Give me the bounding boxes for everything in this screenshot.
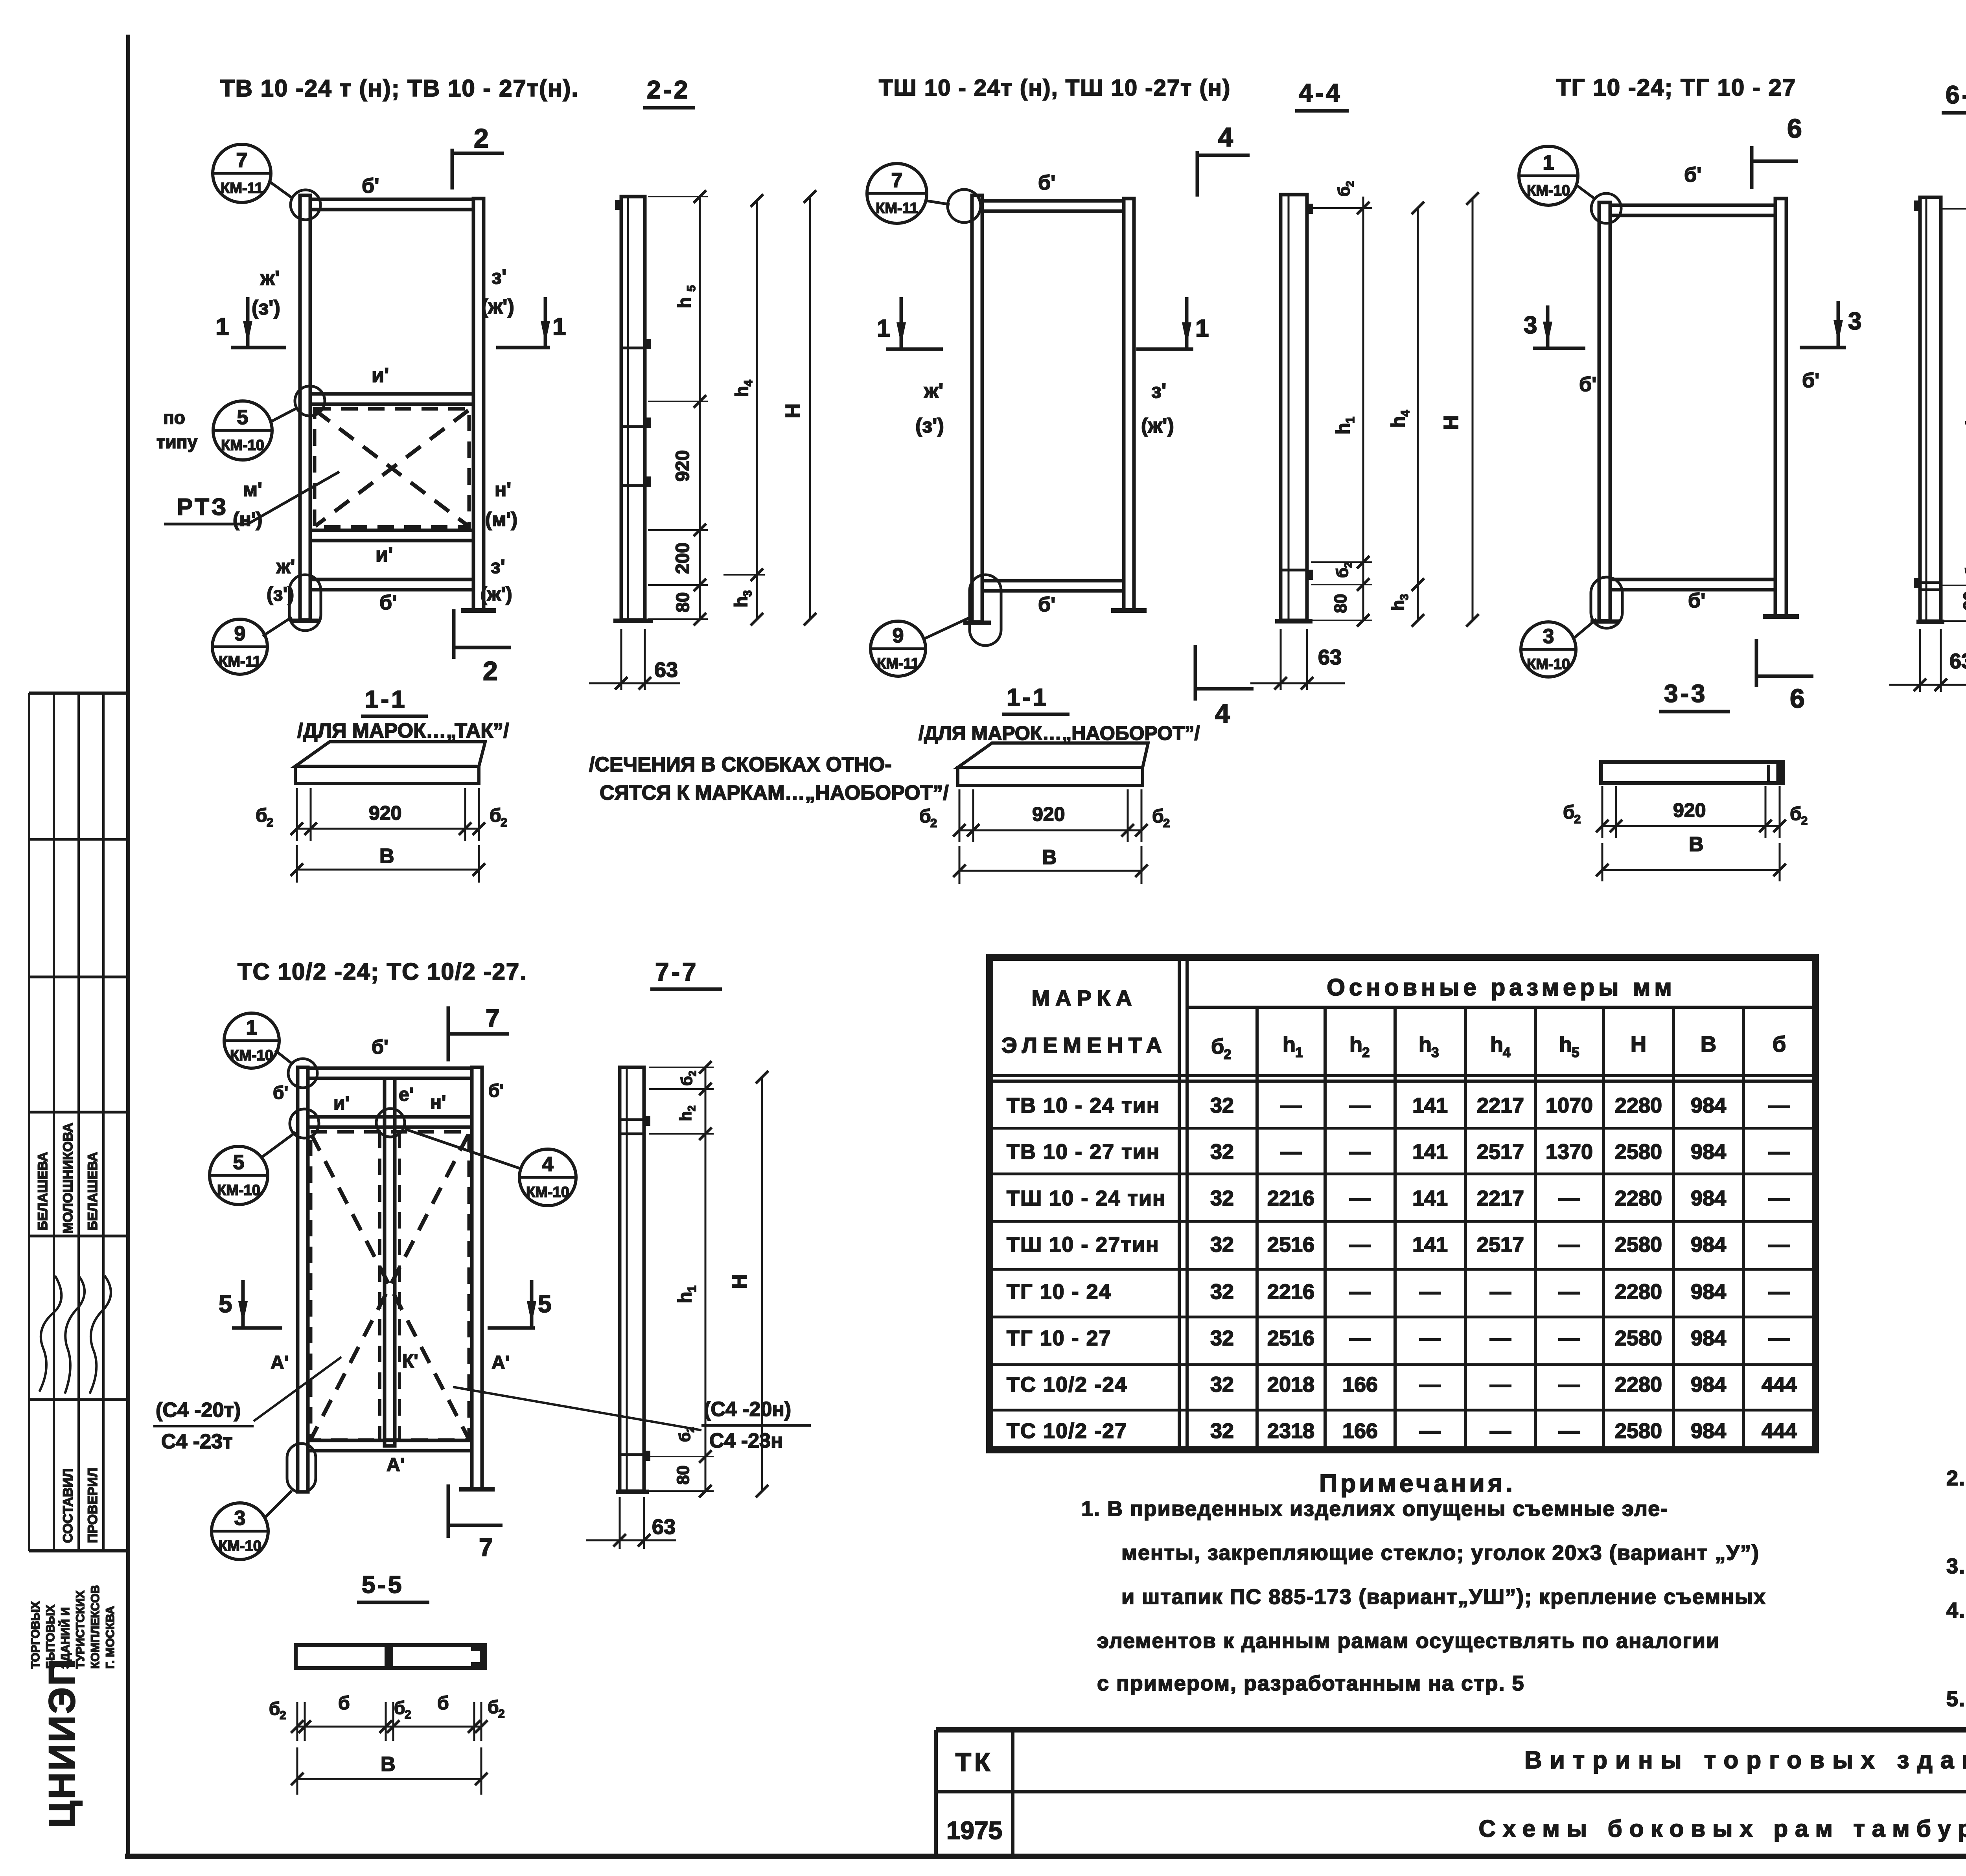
section 6-6 bar [1920,197,1941,621]
dim line N of 7-7 [761,1077,763,1491]
svg-text:6-6: 6-6 [1946,81,1966,109]
TV top bar b' [310,199,473,210]
svg-text:7: 7 [486,1004,500,1032]
svg-text:—: — [1490,1280,1511,1304]
svg-text:2580: 2580 [1615,1140,1662,1164]
svg-text:2018: 2018 [1267,1373,1314,1396]
TG right column [1775,199,1786,616]
svg-text:з': з' [1151,380,1166,403]
svg-text:32: 32 [1210,1326,1234,1350]
svg-text:ТГ 10 - 24: ТГ 10 - 24 [1007,1280,1112,1304]
svg-text:80: 80 [1331,594,1350,613]
TV bottom bar b' [310,579,473,590]
svg-text:1: 1 [1195,315,1209,342]
svg-text:32: 32 [1210,1094,1234,1117]
svg-text:7: 7 [891,169,903,192]
main dimension table frame [990,957,1815,1450]
svg-text:—: — [1769,1233,1790,1256]
TG section mark 6 bottom [1755,639,1758,687]
svg-text:—: — [1490,1419,1511,1443]
svg-text:—: — [1559,1280,1580,1304]
leader C4-20t [254,1357,341,1421]
svg-text:1: 1 [246,1016,258,1039]
svg-text:ТС 10/2 -24: ТС 10/2 -24 [1007,1373,1127,1396]
svg-text:4: 4 [1218,122,1233,152]
svg-text:4: 4 [542,1153,554,1176]
TSh left column foot [963,621,991,625]
leader 9 KM-11 TSh [924,617,970,639]
stamp signature 1 [39,1276,61,1392]
svg-text:3: 3 [1398,594,1411,600]
svg-text:63: 63 [1318,646,1342,669]
TV right column foot [461,608,496,613]
svg-text:1-1: 1-1 [1007,684,1049,711]
section 4-4 bar foot [1275,619,1313,623]
leader 9 KM-11 [263,617,292,636]
leader 4 KM-10 TS [405,1129,520,1168]
svg-text:Н: Н [1440,415,1463,430]
svg-text:5: 5 [237,406,249,429]
svg-text:1: 1 [1343,417,1357,423]
svg-text:Н: Н [782,403,804,418]
svg-text:2: 2 [405,1708,411,1721]
svg-text:ж': ж' [924,380,943,403]
svg-text:—: — [1559,1373,1580,1396]
svg-text:ПРОВЕРИЛ: ПРОВЕРИЛ [85,1468,100,1543]
svg-text:б: б [269,1698,280,1719]
corner joint circle TS second bar [290,1109,319,1138]
section 2-2 bar [621,197,645,620]
svg-text:—: — [1280,1094,1301,1117]
svg-text:В: В [1689,833,1704,856]
svg-text:ж': ж' [260,267,280,290]
svg-text:—: — [1769,1326,1790,1350]
svg-text:Примечания.: Примечания. [1319,1469,1516,1497]
TS top bar b' [308,1068,472,1078]
svg-text:МОЛОШНИКОВА: МОЛОШНИКОВА [61,1123,75,1234]
svg-text:2: 2 [1801,814,1808,828]
node 3 KM-10 TS [212,1503,268,1560]
TS left column [298,1067,308,1492]
svg-text:и штапик ПС 885-173 (вариант: и штапик ПС 885-173 (вариант„УШ”); крепл… [1121,1585,1766,1609]
TV section mark 1 left [246,297,250,348]
leader 3 KM-10 TS [264,1491,292,1518]
node 7 KM-11 TSh [867,164,927,223]
svg-text:К': К' [402,1351,418,1372]
svg-text:3-3: 3-3 [1664,679,1708,708]
svg-text:4. Установку дверных створок: 4. Установку дверных створок с приборами… [1946,1598,1966,1622]
svg-text:/ДЛЯ МАРОК…„НАОБОРОТ”/: /ДЛЯ МАРОК…„НАОБОРОТ”/ [919,722,1200,744]
dim line N of 4-4 [1472,199,1474,620]
svg-text:—: — [1349,1280,1371,1304]
TV section mark 2 top [451,149,454,189]
svg-text:9: 9 [234,622,246,645]
svg-text:БЕЛАШЕВА: БЕЛАШЕВА [35,1152,50,1230]
svg-text:80: 80 [1960,591,1966,611]
svg-text:h: h [676,1111,695,1121]
svg-text:166: 166 [1342,1419,1378,1443]
svg-text:4: 4 [1215,699,1230,728]
svg-text:КМ-10: КМ-10 [1527,656,1570,673]
svg-text:32: 32 [1210,1140,1234,1164]
dim 63 bottom of 4-4 [1280,629,1282,690]
TG left column foot [1590,620,1619,624]
svg-text:32: 32 [1210,1186,1234,1210]
dim line h4 h3 of 4-4 [1417,208,1419,620]
svg-text:б: б [1773,1032,1786,1056]
TV grille diagonal 1 [315,410,468,526]
1-1 naoborot dim b2 920 b2 [959,789,961,842]
svg-text:166: 166 [1342,1373,1378,1396]
svg-text:2216: 2216 [1267,1186,1314,1210]
svg-text:2217: 2217 [1477,1094,1524,1117]
svg-text:ТВ 10 - 27 тин: ТВ 10 - 27 тин [1007,1140,1160,1164]
stamp signature 3 [90,1276,111,1394]
TS section mark 7 top [447,1006,450,1061]
TSh section mark 1 right [1185,297,1189,350]
svg-text:2517: 2517 [1477,1233,1524,1256]
svg-text:(ж'): (ж') [1141,414,1174,437]
svg-text:В: В [1701,1032,1716,1056]
svg-text:3: 3 [1848,308,1861,335]
main table header lines [1187,1006,1815,1009]
svg-text:б: б [1333,568,1351,578]
svg-text:б: б [490,805,501,826]
svg-text:РТЗ: РТЗ [177,494,228,520]
5-5 dim b2 b b2 b b2 [296,1702,298,1741]
svg-text:(н'): (н') [233,508,262,530]
svg-text:ТВ 10 -24 т (н); ТВ 10 - 27т(: ТВ 10 -24 т (н); ТВ 10 - 27т(н). [220,75,579,101]
svg-text:ТОРГОВЫХ: ТОРГОВЫХ [29,1601,42,1669]
stamp name Moloshnikova [61,1123,75,1234]
svg-text:КМ-10: КМ-10 [230,1047,273,1064]
svg-text:984: 984 [1691,1326,1726,1350]
svg-text:2: 2 [930,816,937,830]
corner joint circle TG [1591,193,1621,223]
svg-text:3: 3 [1543,625,1554,648]
svg-text:б': б' [1579,373,1596,396]
svg-text:2216: 2216 [1267,1280,1314,1304]
stamp role sostavil [61,1468,75,1543]
svg-text:—: — [1419,1280,1441,1304]
svg-text:б: б [1563,802,1575,823]
TV section mark 1 right [544,297,547,348]
svg-text:КМ-10: КМ-10 [221,437,264,454]
stamp role proveril [85,1468,100,1543]
svg-text:1975: 1975 [946,1816,1002,1845]
svg-text:ТС 10/2 -27: ТС 10/2 -27 [1007,1419,1127,1443]
TV left column [300,195,310,620]
svg-text:КМ-11: КМ-11 [219,653,261,670]
svg-text:/СЕЧЕНИЯ В СКОБКАХ ОТНО-: /СЕЧЕНИЯ В СКОБКАХ ОТНО- [589,753,892,776]
svg-text:КМ-10: КМ-10 [1527,182,1570,199]
svg-text:2: 2 [686,1105,698,1111]
svg-text:б': б' [488,1080,504,1101]
stamp table horizontals [29,692,127,695]
svg-text:1-1: 1-1 [365,686,407,713]
TS bottom bar A' [308,1440,472,1451]
svg-text:б: б [488,1697,499,1717]
TS right column [472,1067,482,1489]
svg-text:7-7: 7-7 [655,958,699,986]
svg-text:2: 2 [498,1707,505,1720]
svg-text:2580: 2580 [1615,1233,1662,1256]
svg-text:9: 9 [893,624,904,647]
sheet left border [126,35,130,1856]
svg-text:141: 141 [1412,1186,1448,1210]
corner joint circle TSh [948,189,981,223]
svg-text:Н: Н [728,1274,751,1289]
svg-text:Витрины торговых зданий: Витрины торговых зданий [1524,1747,1966,1774]
svg-text:63: 63 [1949,649,1966,673]
leader 3 KM-10 TG [1574,619,1596,638]
svg-text:3: 3 [1524,312,1537,339]
svg-text:444: 444 [1762,1373,1797,1396]
svg-text:б: б [256,805,267,826]
svg-text:—: — [1349,1094,1371,1117]
svg-text:2580: 2580 [1615,1326,1662,1350]
svg-text:984: 984 [1691,1094,1726,1117]
svg-text:2: 2 [483,656,498,686]
title block verticals [934,1730,938,1856]
svg-text:h: h [731,386,752,397]
section 7-7 bar tabs [644,1116,650,1126]
svg-text:141: 141 [1412,1094,1448,1117]
svg-text:Г. МОСКВА: Г. МОСКВА [104,1606,117,1669]
svg-text:h: h [1490,1033,1503,1056]
1-1 naoborot bar 3d view [958,743,1148,767]
dim line N overall [809,197,811,619]
svg-text:типу: типу [156,432,198,452]
TV left column foot [291,619,319,623]
3-3 dim b2 920 b2 [1602,786,1603,838]
svg-text:—: — [1769,1094,1790,1117]
main table vertical lines [1178,957,1181,1450]
svg-text:141: 141 [1412,1233,1448,1256]
svg-text:—: — [1490,1326,1511,1350]
svg-text:h: h [674,297,694,308]
svg-text:б: б [1152,806,1164,827]
svg-text:ТУРИСТСКИХ: ТУРИСТСКИХ [74,1591,87,1669]
svg-text:2516: 2516 [1267,1326,1314,1350]
svg-text:1: 1 [1543,151,1554,174]
node 1 KM-10 TS [224,1013,279,1068]
section 2-2 bar foot [613,619,653,623]
1-1 bar 3d view [295,742,485,766]
svg-text:4: 4 [1398,410,1412,417]
dim line h4 h3 [756,200,758,619]
3-3 bar plan view [1601,762,1783,783]
svg-text:2280: 2280 [1615,1094,1662,1117]
stamp name Belasheva 2 [85,1152,100,1230]
svg-text:—: — [1559,1419,1580,1443]
svg-text:ЭЛЕМЕНТА: ЭЛЕМЕНТА [1001,1033,1167,1058]
svg-text:2: 2 [501,815,507,829]
svg-text:2: 2 [474,123,489,153]
svg-text:Основные размеры мм: Основные размеры мм [1327,974,1676,1001]
svg-text:1. В приведенных изделиях о: 1. В приведенных изделиях опущены съемны… [1081,1497,1668,1521]
svg-text:Н: Н [1631,1032,1646,1056]
leader RT3 [164,472,339,524]
TS diagonal brace 2 [311,1135,468,1438]
svg-text:БЕЛАШЕВА: БЕЛАШЕВА [85,1152,100,1230]
svg-text:h: h [1388,416,1409,428]
svg-text:5: 5 [233,1151,245,1174]
section 2-2 bar break lines [621,347,645,349]
svg-text:—: — [1559,1233,1580,1256]
stamp signature 2 [65,1276,85,1394]
svg-text:—: — [1419,1326,1441,1350]
svg-text:32: 32 [1210,1419,1234,1443]
svg-text:h: h [1388,600,1408,611]
svg-text:и': и' [372,364,389,387]
svg-text:—: — [1419,1373,1441,1396]
leader 7 KM-11 [270,182,293,199]
svg-text:3: 3 [1431,1045,1439,1060]
svg-text:4: 4 [1503,1045,1511,1060]
svg-text:КМ-11: КМ-11 [876,200,918,217]
svg-text:984: 984 [1691,1419,1726,1443]
svg-text:5. Схемы решеток „РТЗ” и узл: 5. Схемы решеток „РТЗ” и узлы установок … [1946,1687,1966,1711]
section 7-7 bar [620,1067,644,1491]
svg-text:КМ-11: КМ-11 [221,180,263,197]
dim line of 7-7 h2 h1 [705,1067,707,1491]
dim line b2 h1 b2 80 [1362,197,1364,620]
svg-text:КМ-11: КМ-11 [877,655,919,672]
svg-text:2: 2 [267,815,273,829]
svg-text:б': б' [379,591,397,614]
TV right column [473,199,484,611]
TSh left column [972,195,982,622]
svg-text:ЦНИИЭП: ЦНИИЭП [41,1657,83,1828]
svg-text:444: 444 [1762,1419,1797,1443]
svg-text:б: б [1335,186,1353,197]
svg-text:элементов к данным рамам о: элементов к данным рамам осуществлять по… [1097,1629,1720,1653]
svg-text:В: В [1042,846,1057,869]
svg-text:(С4 -20н): (С4 -20н) [704,1398,791,1421]
svg-text:и': и' [376,543,393,566]
svg-text:1: 1 [215,313,229,340]
svg-text:2: 2 [1163,816,1170,830]
svg-text:С4 -23н: С4 -23н [709,1429,783,1452]
node 4 KM-10 TS [519,1149,576,1206]
TSh section mark 4 top [1196,151,1199,197]
svg-text:h: h [1963,414,1966,425]
svg-text:2: 2 [280,1709,286,1722]
svg-text:ТШ 10 - 24 тин: ТШ 10 - 24 тин [1007,1186,1166,1210]
svg-text:3. Схемы дверных створок см: 3. Схемы дверных створок см. лист КМ-7 [1946,1554,1966,1578]
dim 63 bottom of 6-6 [1919,629,1921,692]
TSh section mark 4 bottom [1194,645,1197,701]
node 9 KM-11 [212,619,267,674]
svg-text:б': б' [1688,589,1705,612]
svg-text:984: 984 [1691,1373,1726,1396]
svg-text:е': е' [399,1084,414,1105]
svg-text:по: по [163,407,185,428]
TV lower bar i' [310,530,473,541]
stamp institute text block [29,1585,117,1669]
svg-text:—: — [1559,1326,1580,1350]
svg-text:32: 32 [1210,1280,1234,1304]
svg-text:б: б [437,1693,449,1714]
svg-text:2: 2 [685,1427,696,1433]
svg-text:2. Общие указания по технол: 2. Общие указания по технологии изготовл… [1946,1466,1966,1490]
svg-text:КМ-10: КМ-10 [217,1182,260,1199]
svg-text:з': з' [491,266,506,289]
svg-text:3: 3 [741,590,754,597]
svg-text:н': н' [430,1092,446,1113]
TS second bar i' e' n' [308,1117,472,1127]
stamp name Belasheva 1 [35,1152,50,1230]
svg-text:2: 2 [1362,1045,1370,1060]
joint outline at TS left foot [287,1444,316,1492]
node 9 KM-11 TSh [871,621,926,676]
TS section mark 7 bottom [447,1484,450,1538]
svg-text:—: — [1419,1419,1441,1443]
svg-text:5: 5 [219,1291,232,1318]
svg-text:б: б [676,1432,694,1442]
svg-text:5: 5 [538,1291,551,1318]
leader 5 KM-10 TS [261,1132,296,1158]
svg-text:h: h [1559,1033,1572,1056]
svg-text:2580: 2580 [1615,1419,1662,1443]
svg-text:—: — [1559,1186,1580,1210]
node 3 KM-10 TG [1521,622,1576,677]
section 6-6 bar tabs [1914,200,1920,211]
svg-text:СЯТСЯ К МАРКАМ…„НАОБОРОТ”/: СЯТСЯ К МАРКАМ…„НАОБОРОТ”/ [600,782,949,804]
node 5 KM-10 TS [210,1146,268,1205]
svg-text:(С4 -20т): (С4 -20т) [156,1399,241,1422]
svg-text:6: 6 [1787,114,1802,143]
1-1 dim V [296,845,298,883]
svg-text:и': и' [333,1093,350,1114]
svg-text:ТВ 10 - 24 тин: ТВ 10 - 24 тин [1007,1094,1160,1117]
svg-text:141: 141 [1412,1140,1448,1164]
svg-text:2217: 2217 [1477,1186,1524,1210]
section 7-7 bar breaks [620,1118,644,1121]
svg-text:б: б [919,806,931,827]
TG section mark 3 left [1546,305,1550,349]
joint outline at TG left foot [1591,577,1622,628]
svg-text:б': б' [362,175,379,197]
svg-text:менты, закрепляющие стекло; у: менты, закрепляющие стекло; уголок 20х3 … [1121,1541,1760,1565]
TSh section mark 1 left [900,297,903,350]
dim 63 bottom of 7-7 [619,1497,621,1549]
section 4-4 bar breaks [1281,569,1307,572]
node 1 KM-10 TG [1519,146,1578,205]
TS dashed glass rect [311,1132,469,1440]
svg-text:б': б' [1684,164,1701,186]
TG top bar b' [1610,205,1775,215]
svg-text:б': б' [372,1036,388,1058]
TG left column [1599,202,1610,621]
svg-text:2280: 2280 [1615,1373,1662,1396]
svg-text:ТГ 10 - 27: ТГ 10 - 27 [1007,1326,1112,1350]
svg-text:КМ-10: КМ-10 [218,1538,261,1554]
svg-text:7: 7 [236,149,248,172]
svg-text:б: б [1964,178,1966,188]
svg-text:2: 2 [1344,181,1356,187]
svg-text:(з'): (з') [267,583,294,605]
svg-text:80: 80 [672,592,693,612]
5-5 dim V [296,1747,298,1795]
svg-text:КОМПЛЕКСОВ: КОМПЛЕКСОВ [89,1585,102,1669]
svg-text:920: 920 [1032,803,1065,825]
TSh bottom bar b' [982,581,1124,591]
svg-text:1070: 1070 [1546,1094,1593,1117]
svg-text:б': б' [1038,171,1055,194]
svg-text:Схемы боковых рам там: Схемы боковых рам тамбура. [1479,1815,1966,1842]
